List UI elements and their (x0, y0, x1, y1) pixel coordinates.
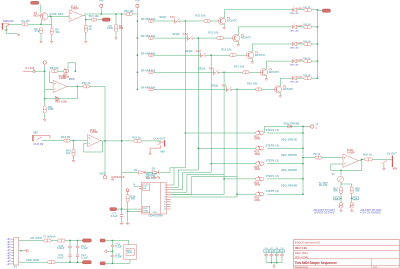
wire jack J1 sleeve to ground (7, 26, 18, 33)
svg-text:BC547: BC547 (34, 13, 43, 17)
wire T2 collector to LED row (237, 27, 239, 35)
svg-text:SEQ5: SEQ5 (211, 83, 219, 87)
ground bar below C7 (120, 222, 124, 225)
svg-text:0805 LED: 0805 LED (290, 47, 299, 49)
wire T3 collector to LED row (251, 44, 253, 52)
pot row 4 wire right (267, 178, 303, 180)
svg-text:X1: X1 (14, 265, 18, 269)
wire IC pin Q5 to column 4 (171, 194, 224, 196)
resistor base R22 (217, 37, 224, 40)
junction mix bus row 1 (302, 132, 304, 134)
svg-text:MFB: MFB (69, 77, 75, 81)
resistor R15 (134, 139, 142, 142)
op-amp U1B (53, 80, 67, 92)
wire U4 to bottom rail (129, 260, 131, 264)
svg-text:+9V_RAW: +9V_RAW (30, 236, 43, 240)
junction rail / pin P1 (100, 13, 102, 15)
svg-text:Date: 2014: Date: 2014 (295, 251, 308, 255)
ground arrow below caps bank (273, 265, 276, 268)
net label SEQ_DRV4 (281, 184, 297, 188)
junction rail / R6 branch (115, 13, 117, 15)
wire junction to base resistor (237, 88, 256, 90)
ground arrow below R3 (50, 40, 53, 43)
resistor R12 (64, 139, 70, 142)
svg-text:0-5V CV RANGE: 0-5V CV RANGE (360, 210, 381, 214)
svg-text:GATE_DET: GATE_DET (49, 12, 63, 16)
label VR3 100k (red) (254, 165, 260, 171)
caps rail to ground (273, 263, 275, 265)
svg-text:CLK OUT: CLK OUT (153, 136, 165, 140)
power rail (top) (84, 13, 126, 15)
label LED3 (red) (297, 42, 303, 44)
connector X1 body (14, 238, 19, 266)
junction LED bus row 2 (317, 26, 319, 28)
wire junction to base resistor (198, 37, 217, 39)
svg-text:This MIDI Simple Sequencer: This MIDI Simple Sequencer (295, 261, 338, 265)
net flag +9V feed (red box) (100, 239, 105, 242)
wire F1 to L1 (51, 240, 57, 242)
resistor R32 (304, 25, 312, 28)
bottom rail of charge pump (105, 262, 130, 264)
label P2 100k (red) (55, 100, 67, 104)
wire base resistor to T1 (210, 20, 218, 22)
svg-text:SR-04R 10k: SR-04R 10k (141, 51, 156, 55)
label VR1 100k (red) (254, 134, 260, 140)
wire R32 to LED bus (311, 26, 317, 28)
svg-text:TP: TP (315, 125, 318, 127)
wire node I down to pin P4 (104, 141, 106, 176)
supply flag +9V (269, 248, 274, 253)
svg-text:SEQ2: SEQ2 (172, 32, 180, 36)
wire gate-bus to D1 (122, 171, 139, 173)
svg-text:100k: 100k (254, 137, 260, 141)
wire base resistor to T4 (249, 71, 260, 73)
label R35 1k (303, 75, 311, 77)
wire pin P1 to rail (100, 11, 102, 14)
wire T4 collector to LED row (265, 61, 267, 69)
resistor R19 50k (vertical) (340, 187, 343, 194)
resistor R2 4.7k (vertical) (40, 28, 43, 34)
svg-text:R12 100k: R12 100k (55, 100, 67, 104)
label STEP4 (266, 174, 279, 178)
net label box left (334, 197, 340, 200)
note ADJUST right (blue) (360, 208, 382, 214)
capacitor C18 (vertical) (275, 253, 279, 263)
ground arrow sideways at X1 (24, 249, 29, 252)
vertical from node D to node G (44, 71, 46, 106)
ground arrow at J3 (149, 152, 152, 155)
label U1A 1458 (red) (71, 4, 79, 10)
label R8 10k (50, 66, 59, 70)
junction node F (76, 86, 78, 88)
wire switch S1 to junction (180, 20, 186, 22)
resistor R14 (row 4 pull) (149, 71, 154, 74)
wire R17 to U2B (322, 157, 343, 159)
caps bank rail (266, 262, 282, 264)
output column 2 (vertical) (197, 38, 199, 170)
title block frame (294, 240, 400, 269)
label C15 0.1uF (115, 252, 122, 258)
junction node K (gate bus end) (121, 208, 123, 210)
LED5 (293, 75, 297, 80)
label C10 100uF (57, 244, 65, 250)
label T1 (332, 172, 336, 176)
svg-text:0.1uF: 0.1uF (115, 245, 122, 249)
jack J2 tip contact (34, 136, 50, 141)
pot row 2 wire left (198, 147, 255, 149)
svg-text:50k: 50k (333, 189, 338, 193)
wire U1A output to node C (83, 16, 91, 20)
wire base resistor to T2 (223, 37, 232, 39)
wire IC clock stub (133, 183, 139, 186)
junction bus / row 3 (137, 54, 139, 56)
ground arrow below R11 (43, 118, 46, 121)
wire D1 to D2 (146, 171, 152, 173)
label R24 10k (234, 65, 245, 69)
label TA1 (red) (170, 15, 175, 19)
net label SEQ3 (185, 49, 193, 53)
title block text: copyright (295, 255, 308, 259)
junction row 4 / output bus 4 (223, 71, 225, 73)
resistor R7 (vertical) (115, 24, 118, 32)
wire switch S2 to junction (193, 37, 199, 39)
svg-text:0.1uF: 0.1uF (115, 255, 122, 259)
svg-text:1: 1 (316, 128, 318, 130)
pot row 3 wire right (267, 163, 303, 165)
label R32 1k (303, 24, 311, 26)
svg-text:100n: 100n (107, 26, 113, 30)
wire node L to ground (127, 211, 129, 222)
label STEP1 (266, 128, 279, 132)
svg-text:10k: 10k (66, 151, 71, 155)
wire row 4 pull to switch (153, 71, 213, 73)
wire node C down to R5 (85, 20, 87, 25)
net label SEQ_DRV1 (281, 138, 297, 142)
wire IC pin Q6 to column 5 (171, 196, 237, 198)
net label SEQ1 (159, 15, 167, 19)
wire X1 mid pin to ground (19, 250, 24, 252)
transistor T3 (246, 52, 253, 59)
capacitor C15 (vertical) (111, 251, 115, 263)
transistor T2 (232, 35, 239, 42)
trim pot T2 (vertical) (338, 203, 343, 209)
junction node R (112, 250, 114, 252)
net label PWR top (30, 236, 43, 240)
resistor R4 (91, 18, 97, 21)
resistor R33 (304, 43, 312, 46)
wire R3 to ground (51, 35, 53, 41)
svg-text:+9V: +9V (7, 258, 12, 260)
resistor R35 (304, 77, 312, 80)
row 4 label SW-CW (141, 68, 156, 72)
resistor F2 (48, 261, 56, 264)
ground arrow at J4 (383, 167, 386, 170)
label R34 1k (303, 57, 311, 60)
pin P5 (circle) (311, 125, 314, 128)
wire IC pin to column 2 (staircase) (171, 170, 199, 187)
wire R33 to LED bus (311, 43, 317, 45)
diode D3 on top row (288, 125, 291, 129)
svg-text:STEP1 (.3): STEP1 (.3) (266, 128, 279, 132)
label T1 (red) (227, 16, 231, 20)
LED supply bus (vertical right) (317, 11, 319, 79)
gate bus (long vertical) (121, 14, 123, 209)
resistor R13 (row 3 pull) (149, 54, 154, 57)
wire pin P2 to rail (136, 11, 138, 14)
resistor R1 (22, 23, 28, 26)
label U1B (red) (59, 74, 67, 80)
resistor R14 10k (vertical) (72, 149, 75, 156)
junction node J (gate bus) (121, 140, 123, 142)
svg-text:13: 13 (163, 209, 166, 211)
label STEP2 (266, 143, 279, 147)
switch S3 (201, 53, 206, 58)
wire LED3 to R33 (297, 43, 304, 45)
title block text: sheet caption (295, 265, 308, 269)
switch S2 (188, 36, 193, 41)
svg-text:TIP: TIP (4, 30, 8, 32)
svg-text:EAGLE version 6.5.0: EAGLE version 6.5.0 (295, 241, 321, 245)
wire plus input (45, 89, 53, 91)
feedback loop U2A (84, 141, 103, 152)
wire IC pin to column 5 (staircase) (171, 177, 237, 195)
net label SEQ4 (198, 66, 206, 70)
svg-text:+9V: +9V (7, 253, 12, 255)
svg-text:R15 1k: R15 1k (132, 135, 141, 139)
feedback loop over pot (68, 63, 75, 71)
output column 3 (vertical) (210, 55, 212, 172)
capacitor C12 (vertical) (68, 255, 72, 262)
label +5V pin (135, 0, 140, 3)
svg-text:GND: GND (143, 210, 148, 212)
label R2 4.7k (34, 27, 40, 33)
label R14 10k (66, 149, 71, 155)
svg-text:+5V: +5V (135, 0, 140, 3)
feedback U2B (331, 159, 362, 170)
label CV OUT (387, 151, 398, 155)
wire switch S4 to junction (219, 71, 225, 73)
transistor T4 (260, 69, 267, 76)
wire row 3 pull to switch (153, 54, 200, 56)
resistor base R21 (204, 20, 211, 23)
svg-text:1458P: 1458P (59, 76, 67, 80)
ground arrow at T2 (237, 44, 240, 47)
svg-text:+9V: +9V (7, 250, 12, 252)
ground stub left of node R (104, 250, 112, 253)
label MIX at J4 (393, 167, 398, 171)
switch S4 (214, 70, 219, 75)
svg-text:SW1: SW1 (99, 171, 105, 175)
supply flag -9V (274, 248, 279, 253)
svg-text:REV 1.0b: REV 1.0b (295, 246, 307, 250)
label BC547C (269, 70, 279, 74)
ground arrow below R14 (72, 159, 75, 162)
jack J3 sleeve to ground (150, 145, 161, 152)
svg-text:10k: 10k (130, 197, 135, 201)
resistor R8 10k (51, 70, 58, 73)
output column 1 (vertical) (184, 21, 186, 168)
label LED5 (red) (297, 77, 303, 79)
ground arrow at T3 (251, 61, 254, 64)
svg-text:R12 10k: R12 10k (208, 30, 219, 34)
resistor R20 10k (vertical) (350, 187, 353, 194)
transistor T1 (218, 17, 225, 24)
junction row 3 / output bus 3 (210, 54, 212, 56)
wire T4 emitter to ground (265, 76, 267, 78)
wire junction to base resistor (211, 54, 230, 56)
svg-text:0805 LED: 0805 LED (290, 30, 299, 32)
svg-text:MIDI IN: MIDI IN (3, 19, 13, 23)
title block text: title (295, 261, 338, 265)
wire U1B output (67, 85, 83, 87)
wire R31 to LED bus (311, 9, 317, 11)
label MFB (69, 77, 75, 81)
wire node Q to U4 (113, 241, 129, 245)
connector X1 pin labels (blue) (7, 239, 12, 266)
trim pot P1 (63, 69, 68, 74)
label C9 100n (107, 24, 113, 30)
wire R19 to node O (340, 194, 342, 203)
svg-text:CLK IN: CLK IN (33, 142, 43, 146)
wire R5 to ground (85, 33, 87, 41)
svg-text:STEP3 (.3): STEP3 (.3) (266, 159, 279, 163)
pot row 3 wire left (211, 163, 255, 165)
wire R2 to ground (40, 33, 42, 40)
net flag GND feed (red box) (100, 262, 105, 265)
wire T2 emitter to ground (237, 41, 239, 43)
svg-text:1044: 1044 (127, 251, 133, 254)
power top wire (19, 240, 44, 242)
svg-text:+9V: +9V (7, 245, 12, 247)
net label box +9V (top-left supply flag) (31, 1, 39, 4)
svg-text:C17: C17 (270, 248, 273, 250)
trim pot VR4 (256, 176, 264, 181)
net label GATE_DET (49, 12, 63, 16)
wire IC pin to column 1 (staircase) (170, 168, 185, 185)
switch S1 (175, 18, 180, 23)
label TA3 (red) (196, 49, 201, 53)
junction LED bus row 5 (317, 77, 319, 79)
junction column 3 / pot row (210, 163, 212, 165)
svg-text:1458P: 1458P (347, 151, 355, 155)
junction column 4 / pot row (223, 178, 225, 180)
svg-text:SEQ_DRV4B: SEQ_DRV4B (281, 184, 297, 188)
ground arrow below R5 (85, 40, 88, 43)
resistor R31 (304, 8, 312, 11)
jack J4 contacts (382, 160, 387, 163)
wire LED2 to R32 (297, 26, 304, 28)
svg-text:STEP2 (.3): STEP2 (.3) (266, 143, 279, 147)
junction bus / row 4 (137, 71, 139, 73)
svg-text:SEQ_DRV1B: SEQ_DRV1B (281, 138, 297, 142)
label R18 1k (363, 152, 372, 156)
svg-text:0.1uF: 0.1uF (81, 255, 88, 259)
label MIX above J2 (33, 130, 38, 134)
label STEP3 (266, 159, 279, 163)
capacitor C11 (vertical) (76, 241, 80, 255)
label C13 0.1uF (81, 253, 88, 259)
label C14 0.1uF (115, 242, 122, 248)
label LED4 (red) (297, 59, 303, 62)
resistor R3 10k (vertical) (50, 28, 53, 34)
junction mix bus row 5 (302, 193, 304, 195)
svg-text:R15 10k: R15 10k (247, 82, 258, 86)
label TA2 (red) (183, 32, 188, 36)
wire R7 to ground (115, 32, 117, 37)
svg-text:D2: D2 (152, 167, 156, 171)
net label PWR bottom (26, 258, 40, 262)
svg-text:+9V: +9V (7, 239, 12, 241)
net label SEQ5 (211, 83, 219, 87)
wire R4 to GATE flag (97, 19, 103, 21)
wire node B down to R3 (51, 16, 53, 28)
junction node G (44, 98, 46, 100)
IC U3 4017 body (142, 182, 167, 214)
junction node Q (112, 240, 114, 242)
label STEP5 (266, 189, 279, 193)
jack J3 CLK-OUT bar (164, 140, 165, 146)
wire U2B output (359, 159, 365, 160)
svg-text:1458P: 1458P (90, 130, 98, 134)
trim pot VR3 (256, 161, 264, 166)
wire R14 to ground (73, 156, 75, 159)
label R10 1k (82, 81, 91, 85)
pin stub above R16 (126, 189, 129, 195)
label BC547C (227, 19, 237, 23)
junction row 1 / output bus 1 (185, 20, 187, 22)
IC U3 left pin stubs (139, 186, 142, 211)
svg-text:4.7k: 4.7k (34, 29, 40, 33)
label IC3 4017 (red) (146, 176, 161, 180)
row 3 label SW-CW (141, 51, 156, 55)
charge pump U4 body (124, 245, 137, 260)
wire T1 collector to LED row (223, 10, 225, 18)
resistor R15 (row 5 pull) (149, 88, 154, 91)
junction node S (112, 262, 114, 264)
svg-text:0805 LED: 0805 LED (290, 65, 299, 67)
IC U3 right pin stubs (167, 185, 171, 209)
svg-text:CD4017BM: CD4017BM (149, 214, 164, 218)
wire node H down to R14 (73, 141, 75, 149)
LED row 5 wire (280, 77, 292, 79)
wire pin P3 to node D (44, 66, 46, 71)
wire row 5 pull to switch (153, 88, 226, 90)
ground arrow at T5 (279, 95, 282, 98)
resistor R12 (row 2 pull) (149, 37, 154, 40)
svg-text:SR-04R 10k: SR-04R 10k (141, 17, 156, 21)
junction node B (R2 tap) (50, 15, 52, 17)
resistor R5 1k (vertical) (84, 25, 87, 33)
junction LED bus row 1 (317, 9, 319, 11)
label MIDI IN (blue) (3, 19, 13, 23)
svg-text:C18: C18 (275, 248, 278, 250)
svg-text:C16: C16 (265, 248, 268, 250)
title block text: eagle version (295, 241, 321, 245)
label GATE/CLK (red) (111, 175, 125, 181)
resistor R18 (364, 158, 372, 161)
trim pot P2 on feedback (55, 96, 59, 101)
pin P1 +9V (circle) (100, 4, 103, 11)
title block text: rev (295, 246, 307, 250)
svg-text:GND_RAW: GND_RAW (26, 258, 40, 262)
wire R12 to node H (70, 140, 88, 142)
supply flag GND (280, 248, 285, 253)
jack J1 pin name (4, 30, 8, 32)
junction node N (fb tap) (340, 169, 342, 171)
capacitor C16 (vertical) (264, 253, 268, 263)
pot row 5 wire left (237, 193, 256, 195)
label R13 1M (61, 135, 71, 139)
